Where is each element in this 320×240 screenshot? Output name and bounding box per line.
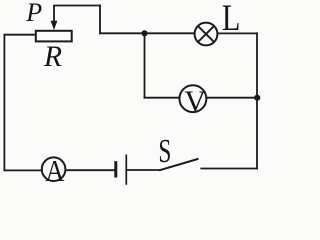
wire lamp left lead xyxy=(100,32,194,34)
ammeter xyxy=(42,157,66,181)
svg-text:L: L xyxy=(222,0,241,39)
wire voltmeter branch vertical xyxy=(144,33,146,97)
wire rheostat left lead xyxy=(4,34,35,36)
voltmeter xyxy=(179,85,206,112)
svg-text:S: S xyxy=(158,133,171,170)
wire right vertical xyxy=(256,33,258,168)
wire left vertical xyxy=(3,35,5,171)
lamp L xyxy=(195,23,218,46)
wire voltmeter left lead xyxy=(145,97,180,99)
wire top horizontal xyxy=(54,5,100,7)
svg-text:A: A xyxy=(45,153,65,188)
wire switch to right corner xyxy=(201,168,257,170)
svg-text:V: V xyxy=(184,85,206,118)
battery cell xyxy=(116,155,127,185)
rheostat R body xyxy=(36,31,72,42)
node junction dot right xyxy=(254,95,260,101)
switch S xyxy=(160,159,198,170)
wire voltmeter right lead xyxy=(207,97,257,99)
wire ammeter to battery xyxy=(66,169,114,171)
rheostat wiper arrow xyxy=(51,6,58,31)
wire lamp right lead xyxy=(218,32,257,34)
wire battery to switch xyxy=(126,169,159,171)
wire top step-down vertical xyxy=(99,6,101,34)
svg-text:R: R xyxy=(43,41,62,73)
node junction dot top xyxy=(141,30,147,36)
svg-text:P: P xyxy=(25,0,42,27)
wire bottom left segment xyxy=(4,169,41,171)
